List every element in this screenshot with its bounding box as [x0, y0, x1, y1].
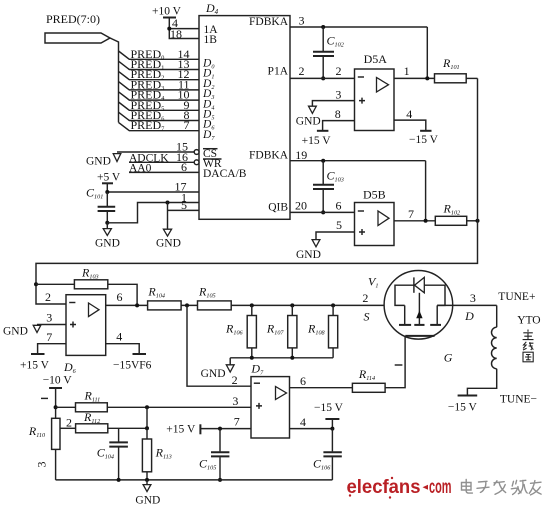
- capacitor C106: [331, 429, 333, 452]
- svg-text:GND: GND: [201, 368, 226, 380]
- svg-text:4: 4: [116, 330, 122, 344]
- wire P1A pin2: [290, 77, 355, 79]
- svg-text:2: 2: [336, 64, 342, 78]
- power +15 V: [31, 353, 45, 355]
- resistor R107: [291, 305, 293, 315]
- ground: [106, 223, 108, 229]
- capacitor C105: [218, 427, 222, 431]
- power -15 V: [458, 395, 478, 397]
- resistor R111: [56, 406, 76, 408]
- wire TUNE+: [496, 305, 498, 327]
- resistor R108: [332, 305, 334, 315]
- wire pin3 + input: [37, 324, 66, 326]
- wire bus entry: [110, 38, 119, 122]
- capacitor C104: [118, 428, 120, 441]
- svg-text:1B: 1B: [204, 34, 218, 46]
- wire pin4: [394, 120, 426, 130]
- svg-text:−15 V: −15 V: [409, 134, 439, 146]
- svg-text:2: 2: [66, 416, 72, 430]
- svg-text:2: 2: [299, 64, 305, 78]
- wire PRED7: [119, 118, 200, 133]
- svg-text:−15VF6: −15VF6: [113, 359, 152, 371]
- svg-text:2: 2: [232, 373, 238, 387]
- svg-text:5: 5: [181, 198, 187, 212]
- PRED row group placeholder: [119, 47, 200, 133]
- resistor R105: [198, 301, 232, 310]
- pin 1 mark: [41, 397, 48, 399]
- wire pin15: [117, 151, 194, 153]
- svg-text:PRED(7:0): PRED(7:0): [46, 12, 100, 26]
- resistor R103: [36, 283, 74, 285]
- wire PRED5: [119, 98, 200, 113]
- wire pin3 + input: [312, 101, 354, 106]
- svg-text:GND: GND: [3, 326, 28, 338]
- svg-text:6: 6: [117, 290, 123, 304]
- svg-text:YTO: YTO: [517, 315, 540, 327]
- svg-text:6: 6: [181, 160, 187, 174]
- node R108: [331, 303, 335, 307]
- svg-text:3: 3: [232, 394, 238, 408]
- svg-text:4: 4: [406, 107, 412, 121]
- wire junction: [146, 407, 148, 428]
- svg-text:6: 6: [300, 374, 306, 388]
- wire PRED6: [119, 108, 200, 123]
- node C102 top: [321, 25, 325, 29]
- wire TUNE-: [467, 369, 496, 395]
- bulk with arrow: [418, 293, 420, 324]
- wire QIB pin20: [290, 211, 355, 213]
- node: [167, 27, 171, 31]
- ground: [163, 229, 171, 236]
- drain wire: [437, 304, 497, 306]
- svg-text:TUNE−: TUNE−: [500, 394, 537, 406]
- wire pin4: [290, 428, 333, 430]
- svg-text:8: 8: [335, 107, 341, 121]
- power -15VF6: [133, 353, 147, 355]
- op-amp D5A: [355, 69, 395, 131]
- transistor V1: [384, 271, 453, 340]
- svg-text:7: 7: [234, 415, 240, 429]
- wire to MOSFET S: [231, 304, 405, 306]
- svg-text:P1A: P1A: [268, 66, 289, 78]
- svg-text:FDBKA: FDBKA: [249, 150, 289, 162]
- svg-text:−15 V: −15 V: [314, 402, 344, 414]
- svg-text:19: 19: [295, 148, 307, 162]
- resistor R112: [76, 424, 108, 433]
- svg-text:7: 7: [46, 330, 52, 344]
- svg-text:QIB: QIB: [268, 202, 288, 214]
- resistor R101: [435, 74, 467, 83]
- svg-text:6: 6: [336, 198, 342, 212]
- resistor R106: [251, 305, 253, 315]
- wire pin4: [169, 28, 199, 30]
- svg-text:+15 V: +15 V: [302, 135, 332, 147]
- svg-text:20: 20: [295, 198, 307, 212]
- resistor R104: [148, 301, 182, 310]
- ground: [33, 325, 41, 332]
- bus tag: [45, 33, 110, 43]
- wire pin4: [106, 344, 140, 354]
- resistor R102: [435, 216, 466, 225]
- svg-text:7: 7: [408, 207, 414, 221]
- wire to gate: [385, 336, 405, 388]
- ground: [312, 240, 320, 247]
- svg-text:4: 4: [300, 415, 306, 429]
- resistor R114: [352, 383, 385, 392]
- op-amp D5B: [355, 203, 395, 246]
- power +15 V: [317, 130, 329, 132]
- svg-text:GND: GND: [296, 249, 321, 261]
- wire pin5: [168, 209, 200, 211]
- inductor YTO coil: [492, 327, 497, 369]
- svg-text:elecfans: elecfans: [347, 477, 421, 498]
- diode: [413, 277, 415, 292]
- ground: [309, 106, 317, 113]
- svg-text:DACA/B: DACA/B: [203, 168, 247, 180]
- svg-text:D5B: D5B: [363, 188, 386, 202]
- node R106: [250, 303, 254, 307]
- pin 1 gate mark: [395, 364, 403, 366]
- node R113 tap: [145, 405, 149, 409]
- wire pin6 output: [106, 304, 148, 306]
- body diode loop: [395, 285, 414, 305]
- gate bar: [405, 335, 434, 337]
- wire pin7: [38, 344, 66, 354]
- node C103 top: [321, 159, 325, 163]
- resistor R113: [146, 428, 148, 439]
- svg-text:D: D: [464, 309, 474, 323]
- op-amp D7: [251, 377, 290, 438]
- wire node to pin2: [187, 305, 251, 386]
- svg-text:com: com: [429, 477, 452, 498]
- wire PRED0: [119, 47, 200, 62]
- wire pin5 + input: [316, 232, 355, 239]
- svg-text:3: 3: [299, 14, 305, 28]
- wire to ground: [167, 203, 169, 230]
- label dianzifashaoyou (Chinese): [462, 480, 542, 495]
- wire feedback: [426, 27, 428, 78]
- svg-text:D5A: D5A: [364, 52, 388, 66]
- wire bottom rail: [56, 479, 333, 481]
- svg-text:S: S: [364, 310, 370, 324]
- wire right rail: [36, 78, 478, 304]
- svg-text:+5 V: +5 V: [97, 172, 121, 184]
- wire pin7: [201, 428, 251, 430]
- power -15 V: [420, 130, 431, 132]
- svg-text:3: 3: [35, 462, 49, 468]
- svg-text:PRED7: PRED7: [131, 118, 165, 133]
- svg-text:3: 3: [470, 291, 476, 305]
- wire pin17: [107, 183, 199, 192]
- svg-text:+15 V: +15 V: [20, 359, 50, 371]
- svg-text:GND: GND: [95, 238, 120, 250]
- wire pin8: [323, 121, 355, 131]
- svg-text:2: 2: [45, 290, 51, 304]
- wire pin3 + input: [107, 406, 251, 408]
- wire common rail: [230, 357, 333, 359]
- svg-text:−15 V: −15 V: [448, 402, 478, 414]
- svg-text:G: G: [444, 350, 453, 364]
- wire pin7 output: [394, 220, 435, 222]
- svg-text:TUNE+: TUNE+: [498, 291, 535, 303]
- node R107: [290, 303, 294, 307]
- node to D7: [185, 303, 189, 307]
- svg-text:5: 5: [336, 218, 342, 232]
- svg-text:−10 V: −10 V: [43, 374, 73, 386]
- svg-text:18: 18: [170, 27, 182, 41]
- svg-text:GND: GND: [135, 495, 160, 507]
- node R103 tap: [34, 282, 38, 286]
- svg-text:3: 3: [46, 311, 52, 325]
- svg-text:+15 V: +15 V: [166, 424, 196, 436]
- svg-text:1: 1: [404, 64, 410, 78]
- wire PRED1: [119, 57, 200, 72]
- svg-text:GND: GND: [156, 238, 181, 250]
- IC D4: [199, 16, 290, 220]
- wire feedback: [425, 161, 427, 221]
- label main coil (Chinese): [523, 330, 534, 362]
- op-amp D6: [66, 295, 106, 356]
- wire FDBKA pin3: [290, 26, 427, 28]
- potentiometer R110: [52, 418, 60, 449]
- wire pin1: [107, 203, 199, 223]
- wire pin1 output: [394, 77, 435, 79]
- wire FDBKA pin19: [290, 160, 426, 162]
- wire PRED2: [119, 67, 200, 82]
- ground: [229, 358, 231, 365]
- svg-text:GND: GND: [296, 116, 321, 128]
- wire PRED4: [119, 88, 200, 103]
- wire: [169, 18, 199, 39]
- ground: [146, 480, 148, 485]
- svg-text:GND: GND: [86, 156, 111, 168]
- svg-text:FDBKA: FDBKA: [249, 16, 289, 28]
- channel contacts: [404, 305, 406, 324]
- svg-text:2: 2: [362, 291, 368, 305]
- wire pin6 output: [290, 387, 353, 389]
- svg-text:3: 3: [335, 87, 341, 101]
- svg-text:7: 7: [184, 118, 190, 132]
- wire PRED3: [119, 77, 200, 92]
